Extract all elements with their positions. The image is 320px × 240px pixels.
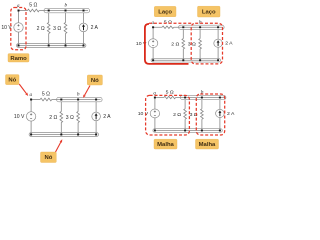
c3 wire: I1 to bottom node (95, 121, 97, 135)
c1 bottom node enclosure (17, 44, 86, 48)
c4 wire: node a to R1 (155, 97, 164, 99)
c1 resistor R1 5-ohm (28, 9, 40, 12)
svg-text:2 A: 2 A (91, 25, 99, 31)
junction dot c4-2 (184, 97, 186, 99)
junction dot c2-2 (182, 26, 184, 28)
c1 wire: V1 to bottom node (18, 32, 20, 46)
c2 resistor R3 3-ohm (199, 39, 202, 49)
c3 voltage source V1 10V (26, 112, 35, 121)
c4 wire: R1 to node b bus (176, 97, 182, 99)
c4 bottom node bus wire (155, 130, 220, 132)
circuit 1 (top-left): branch example (1, 2, 98, 47)
c1 wire: R1 to node b bus (39, 10, 45, 12)
c2 wire: R1 to node b bus (174, 26, 180, 28)
c2 bottom node bus wire (153, 59, 218, 61)
junction dot c2-1 (152, 26, 154, 28)
c3 resistor R2 2-ohm (60, 112, 63, 123)
junction dot c4-4 (219, 97, 221, 99)
c1 wire: node b to R2 (48, 13, 50, 23)
c4 node b enclosure (180, 95, 226, 99)
junction dot c4-5 (154, 130, 156, 132)
c3 wire: node b to I1 (95, 102, 97, 112)
svg-text:Nó: Nó (44, 155, 52, 161)
c2 node b bus wire (180, 26, 223, 28)
c4 wire: node b to I1 (219, 100, 221, 110)
c3 wire: node b to R3 (77, 102, 79, 112)
c1 wire: node b to R3 (65, 13, 67, 23)
arrow from No 3 to bottom node (56, 142, 61, 152)
c3 bottom node bus wire (31, 134, 96, 136)
svg-text:2 Ω: 2 Ω (49, 115, 57, 121)
circuit 3 (bottom-left): node example (14, 91, 111, 136)
junction dot c2-8 (217, 59, 219, 61)
label Laco 1 (154, 6, 176, 16)
svg-text:2 A: 2 A (227, 111, 235, 117)
c4 wire: node b to R3 (201, 100, 203, 109)
junction dot c2-3 (199, 26, 201, 28)
junction dot c4-6 (184, 130, 186, 132)
svg-text:Ramo: Ramo (10, 56, 27, 62)
label Ramo (8, 54, 29, 62)
svg-text:2 Ω: 2 Ω (37, 26, 45, 32)
label No 1 (6, 75, 20, 85)
svg-text:5 Ω: 5 Ω (166, 90, 174, 96)
c1 wire: node a down to V1 (18, 11, 20, 23)
mesh 2 highlight (dashed red) circuit 4 (196, 94, 224, 135)
c3 resistor R1 5-ohm (40, 98, 52, 101)
svg-text:2 Ω: 2 Ω (173, 112, 181, 118)
c2 bottom node enclosure (151, 58, 220, 62)
c2 wire: node b to R2 (182, 29, 184, 38)
mesh 1 highlight (dashed red) circuit 4 (146, 95, 190, 135)
junction dot c4-7 (201, 130, 203, 132)
c4 bottom node enclosure (153, 129, 222, 133)
c4 wire: R3 to bottom node (201, 119, 203, 130)
svg-text:10 V: 10 V (14, 114, 25, 120)
c3 wire: node b to R2 (60, 102, 62, 112)
c1 wire: R2 to bottom node (48, 34, 50, 46)
label Laco 2 (198, 6, 221, 17)
c3 current source I1 2A (92, 112, 101, 121)
c2 wire: V1 to bottom node (152, 48, 154, 61)
c1 wire: R3 to bottom node (65, 34, 67, 46)
c1 resistor R3 3-ohm (64, 23, 67, 34)
svg-text:5 Ω: 5 Ω (164, 19, 172, 25)
junction dot c1-6 (48, 45, 50, 47)
c4 voltage source V1 10V (150, 109, 159, 118)
c1 resistor R2 2-ohm (47, 23, 50, 34)
junction dot c1-3 (65, 10, 67, 12)
label No 2 (87, 75, 102, 85)
junction dot c1-8 (83, 45, 85, 47)
svg-text:2 Ω: 2 Ω (171, 42, 179, 48)
branch highlight: dashed red box around V1 of circuit 1 (11, 8, 26, 50)
c3 wire: R1 to node b bus (52, 99, 58, 101)
junction dot c4-1 (154, 97, 156, 99)
c1 wire: node a to R1 (19, 10, 28, 12)
c2 wire: node a to R1 (153, 26, 162, 28)
svg-text:5 Ω: 5 Ω (42, 91, 50, 97)
loop 1 highlight (solid red) circuit 2 (145, 24, 189, 64)
c4 wire: node a down to V1 (154, 98, 156, 110)
arrow from No 1 to node a (19, 84, 26, 93)
c4 node b bus wire (181, 97, 224, 99)
c4 resistor R3 3-ohm (201, 109, 204, 119)
junction dot c1-1 (18, 10, 20, 12)
c2 wire: I1 to bottom node (217, 47, 219, 60)
junction dot c2-6 (182, 59, 184, 61)
c2 node b enclosure (179, 25, 225, 29)
junction dot c2-7 (199, 59, 201, 61)
c2 wire: node b to R3 (199, 29, 201, 38)
svg-text:3 Ω: 3 Ω (188, 42, 196, 48)
circuit 2 (top-right): loop example (136, 19, 233, 62)
c3 wire: V1 to bottom node (30, 121, 32, 135)
c2 wire: node b to I1 (217, 29, 219, 39)
circuit 4 (bottom-right): mesh example (138, 90, 235, 133)
svg-text:Malha: Malha (199, 142, 216, 148)
arrow from No 2 to node b (85, 86, 90, 96)
c2 wire: R2 to bottom node (182, 49, 184, 60)
c4 resistor R2 2-ohm (184, 109, 187, 119)
svg-text:Nó: Nó (91, 78, 99, 84)
c3 node b bus wire (58, 99, 101, 101)
c3 bottom node enclosure (29, 133, 98, 137)
c1 node b bus wire (45, 10, 88, 12)
c2 resistor R2 2-ohm (182, 39, 185, 49)
svg-text:3 Ω: 3 Ω (53, 26, 61, 32)
junction dot c3-4 (95, 99, 97, 101)
c2 wire: node a down to V1 (152, 27, 154, 39)
c1 wire: node b to I1 (83, 13, 85, 23)
c4 current source I1 2A (216, 109, 225, 117)
c2 resistor R1 5-ohm (162, 26, 174, 29)
c3 wire: node a to R1 (31, 99, 40, 101)
junction dot c1-7 (65, 45, 67, 47)
c3 wire: node a down to V1 (30, 100, 32, 112)
c4 wire: I1 to bottom node (219, 117, 221, 130)
c3 node b enclosure (57, 97, 103, 102)
junction dot c3-5 (30, 134, 32, 136)
c1 bottom node bus wire (19, 45, 84, 47)
junction dot c3-6 (60, 134, 62, 136)
junction dot c4-3 (201, 97, 203, 99)
c3 wire: R3 to bottom node (77, 123, 79, 135)
c2 wire: R3 to bottom node (199, 49, 201, 60)
loop 2 highlight (dashed red) circuit 2 (191, 23, 222, 64)
c3 resistor R3 3-ohm (77, 112, 80, 123)
junction dot c3-3 (77, 99, 79, 101)
junction dot c1-4 (83, 10, 85, 12)
c4 resistor R1 5-ohm (164, 96, 176, 99)
c3 wire: R2 to bottom node (60, 123, 62, 135)
junction dot c3-2 (60, 99, 62, 101)
junction dot c2-4 (217, 26, 219, 28)
label Malha 1 (154, 139, 177, 149)
c1 voltage source V1 10V (14, 23, 23, 32)
svg-text:Laço: Laço (202, 10, 216, 16)
svg-text:10 V: 10 V (138, 111, 149, 117)
junction dot c1-2 (48, 10, 50, 12)
svg-text:Malha: Malha (157, 142, 174, 148)
svg-text:5 Ω: 5 Ω (29, 2, 37, 8)
svg-text:2 A: 2 A (103, 114, 111, 120)
junction dot c3-1 (30, 99, 32, 101)
svg-text:Nó: Nó (8, 78, 16, 84)
c2 voltage source V1 10V (148, 39, 157, 48)
label No 3 (41, 152, 57, 163)
svg-text:3 Ω: 3 Ω (66, 115, 74, 121)
junction dot c1-5 (18, 45, 20, 47)
junction dot c3-8 (95, 134, 97, 136)
junction dot c4-8 (219, 130, 221, 132)
c2 current source I1 2A (214, 39, 223, 47)
svg-text:Laço: Laço (158, 10, 172, 16)
c1 wire: I1 to bottom node (83, 32, 85, 46)
c1 node b enclosure (44, 8, 90, 13)
junction dot c3-7 (77, 134, 79, 136)
loop 1 top (dashed red) circuit 2 (149, 22, 191, 24)
c4 wire: node b to R2 (184, 100, 186, 109)
c4 wire: V1 to bottom node (154, 118, 156, 131)
label Malha 2 (196, 139, 219, 149)
c1 current source I1 2A (79, 23, 88, 32)
c4 wire: R2 to bottom node (184, 119, 186, 130)
junction dot c2-5 (152, 59, 154, 61)
svg-text:2 A: 2 A (225, 41, 233, 47)
